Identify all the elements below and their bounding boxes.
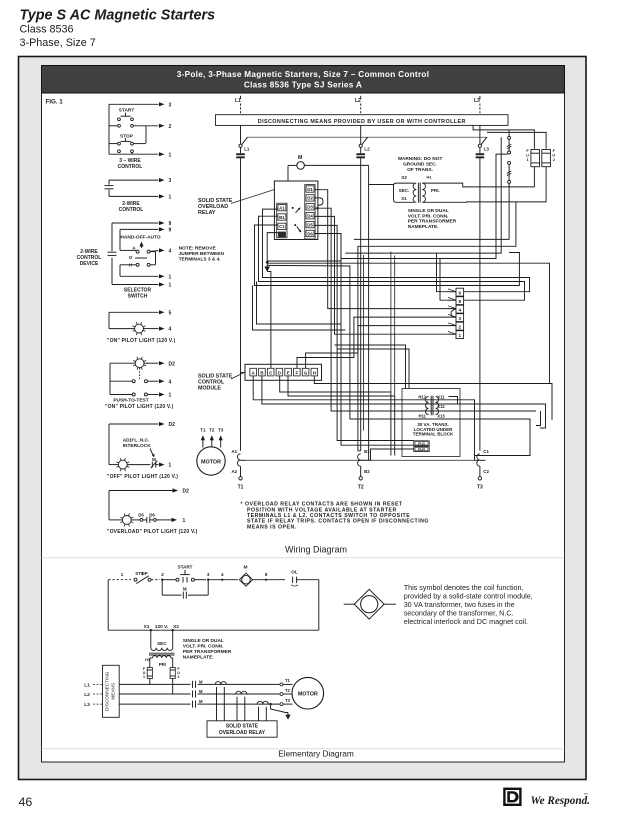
wire transformer route R4 [341, 154, 508, 258]
svg-text:INTERLOCK: INTERLOCK [123, 443, 152, 449]
svg-text:L2: L2 [364, 146, 370, 151]
motor terminals T1 T2 T3 (elementary) [280, 683, 283, 686]
svg-text:"ON" PILOT LIGHT (120 V.): "ON" PILOT LIGHT (120 V.) [105, 404, 174, 410]
svg-text:OF TRANS.: OF TRANS. [407, 167, 433, 173]
svg-text:D2: D2 [307, 196, 313, 201]
svg-text:9: 9 [169, 228, 172, 234]
ground tap (elementary) [269, 703, 271, 705]
wire relay D5 to fuse FU3 [314, 225, 413, 440]
wire terminal feed to 30VA b [337, 349, 409, 389]
svg-text:T2: T2 [285, 688, 291, 693]
wire relay A1 to terminal 9 [263, 209, 530, 292]
svg-text:3-Pole, 3-Phase Magnetic Start: 3-Pole, 3-Phase Magnetic Starters, Size … [177, 70, 430, 79]
ON pilot light left wire [108, 312, 110, 328]
svg-text:8: 8 [459, 299, 462, 304]
wire vertical 394 up [394, 256, 396, 397]
svg-text:H1: H1 [427, 175, 433, 180]
coil symbol legend diamond [354, 589, 384, 619]
svg-text:M: M [298, 155, 302, 161]
terminal T3 [479, 466, 481, 476]
pilot light PL3 [109, 464, 119, 466]
2-wire control device symbol [108, 251, 117, 253]
svg-text:"OVERLOAD" PILOT LIGHT (120 V.: "OVERLOAD" PILOT LIGHT (120 V.) [107, 529, 198, 535]
power wire L3 down [479, 158, 481, 451]
svg-text:L3: L3 [474, 98, 480, 104]
svg-text:C1: C1 [483, 449, 489, 454]
svg-text:3: 3 [169, 178, 172, 184]
elementary transformer primary [153, 656, 171, 658]
wire module D hook [536, 411, 541, 426]
disconnecting means box (elementary) [103, 665, 120, 717]
svg-text:PRI.: PRI. [431, 188, 440, 193]
solid state overload relay box (elementary) [207, 721, 277, 737]
svg-text:B: B [260, 370, 263, 375]
svg-text:X13: X13 [437, 414, 445, 419]
elementary rung right wire [318, 580, 320, 631]
push-to-test contact row 1 [132, 380, 135, 383]
svg-text:1: 1 [169, 195, 172, 201]
2-wire control: wire to terminal 1 [109, 195, 159, 197]
svg-text:4: 4 [169, 379, 172, 385]
wire bundle extra 1 [363, 255, 365, 431]
svg-text:D5: D5 [307, 222, 313, 227]
power wire L1 down [240, 158, 242, 451]
svg-text:M: M [199, 679, 203, 684]
phase 3 wire and CT [206, 703, 280, 705]
svg-text:L1: L1 [235, 98, 241, 104]
3-wire control left wire [108, 104, 110, 154]
motor M2 (elementary) [292, 677, 324, 709]
svg-text:M: M [183, 587, 187, 592]
selector right bracket wire [150, 251, 155, 253]
svg-text:L1: L1 [244, 146, 250, 151]
wire module A tap to L1 [241, 372, 246, 374]
svg-text:5: 5 [169, 310, 172, 316]
wire to terminal 1 [131, 153, 133, 154]
svg-text:3: 3 [207, 572, 210, 577]
svg-text:T3: T3 [477, 485, 483, 491]
pilot light PL1 [109, 328, 135, 330]
svg-text:MEANS IS OPEN.: MEANS IS OPEN. [247, 524, 297, 530]
dark title bar [42, 66, 565, 94]
svg-text:46: 46 [19, 795, 33, 809]
svg-text:FU3: FU3 [418, 442, 425, 446]
wire relay GND to ground [267, 233, 278, 263]
selector switch: wire to terminal 9 (inner) [120, 228, 159, 230]
overload relay box [274, 181, 318, 240]
wire staircase to module G [257, 282, 342, 325]
svg-text:L2: L2 [355, 98, 361, 104]
svg-text:D5: D5 [138, 512, 144, 517]
motor lead T2 arrow [211, 437, 213, 447]
svg-text:MOTOR: MOTOR [201, 459, 221, 465]
elementary transformer T1 secondary [150, 630, 152, 648]
svg-text:VOLT. PRI. CONN.: VOLT. PRI. CONN. [408, 213, 449, 219]
wire relay C1 loop [255, 225, 520, 286]
svg-text:F: F [296, 370, 299, 375]
2-wire control: wire to terminal 3 [109, 179, 159, 181]
svg-text:T1: T1 [200, 427, 206, 432]
svg-text:B1: B1 [364, 449, 370, 454]
svg-text:U: U [552, 154, 555, 158]
ground junction [266, 261, 269, 264]
svg-text:1: 1 [169, 274, 172, 280]
svg-text:electrical interlock and DC ma: electrical interlock and DC magnet coil. [404, 617, 528, 626]
svg-text:T3: T3 [285, 698, 291, 703]
svg-text:Elementary Diagram: Elementary Diagram [278, 748, 354, 758]
svg-text:E: E [287, 370, 290, 375]
relay terminals D1-D6 [305, 185, 315, 239]
svg-text:NAMEPLATE.: NAMEPLATE. [408, 224, 439, 230]
phase 1 wire and CT [206, 683, 280, 685]
terminal T2 [360, 466, 362, 476]
power wire L2 down [360, 158, 362, 451]
wire module E down [288, 376, 395, 456]
3-wire control: wire to terminal 3 [109, 103, 159, 105]
wire secondary to center [369, 184, 394, 186]
wire START row to terminal 2 [109, 125, 117, 127]
phase 2 wire and CT [206, 693, 280, 695]
wire box to fuse FU1 [473, 125, 534, 148]
svg-text:T2: T2 [209, 427, 215, 432]
OFF pilot left wire [108, 424, 110, 465]
wire START to STOP [145, 126, 147, 143]
svg-text:120 V.: 120 V. [155, 624, 168, 630]
svg-text:2: 2 [459, 324, 462, 329]
push-to-test left wire [110, 362, 135, 364]
svg-text:CONTROL: CONTROL [119, 207, 144, 213]
svg-text:OVERLOAD RELAY: OVERLOAD RELAY [219, 730, 266, 736]
fuse FU-L2 [360, 147, 362, 153]
motor M1 [197, 447, 225, 475]
svg-text:L3: L3 [84, 702, 90, 708]
wire transformer route R3 [345, 137, 501, 253]
svg-text:3: 3 [459, 316, 462, 321]
terminal T1 [240, 466, 242, 476]
svg-text:PER TRANSFORMER: PER TRANSFORMER [408, 219, 457, 225]
elementary diagram caption [42, 748, 565, 750]
overload sensor coil A1/A2 [237, 454, 240, 466]
svg-text:1: 1 [169, 463, 172, 469]
svg-text:D6: D6 [149, 512, 155, 517]
node L3 [479, 96, 481, 99]
svg-text:JUMPER BETWEEN: JUMPER BETWEEN [179, 251, 225, 257]
svg-text:1: 1 [169, 393, 172, 399]
30 VA transformer enclosure [402, 389, 460, 457]
svg-text:M: M [152, 457, 156, 462]
svg-text:D3: D3 [307, 205, 313, 210]
svg-text:RELAY: RELAY [198, 210, 216, 216]
terminal block hook 4-3 [451, 309, 456, 318]
svg-text:TERMINAL BLOCK: TERMINAL BLOCK [413, 432, 454, 437]
svg-text:2: 2 [161, 572, 164, 577]
selector switch: wire to terminal 9 (outer) [112, 222, 159, 224]
wire fan 2 from junction [267, 265, 530, 455]
svg-text:L2: L2 [84, 692, 90, 698]
svg-text:1: 1 [143, 675, 145, 679]
wire module G to terminal 2 [306, 326, 456, 369]
svg-text:"ON" PILOT LIGHT (120 V.): "ON" PILOT LIGHT (120 V.) [107, 338, 176, 344]
wire fan 1b from junction [267, 234, 341, 262]
primary tap jumper H2 [508, 136, 511, 139]
svg-text:DEVICE: DEVICE [80, 261, 99, 267]
selector: wire to terminal 1 (outer) [112, 284, 159, 286]
wire module B down [262, 376, 458, 404]
svg-text:G: G [304, 370, 308, 375]
ON pilot light: wire to terminal 5 [109, 311, 159, 313]
svg-text:PER TRANSFORMER: PER TRANSFORMER [183, 649, 232, 655]
svg-text:U: U [526, 154, 529, 158]
wire transformer route R2 [358, 202, 516, 451]
wire transformer route R1 [354, 183, 509, 239]
wire M coil right [304, 164, 368, 166]
svg-text:B2: B2 [364, 469, 370, 474]
svg-text:2: 2 [169, 124, 172, 130]
selector: wire to terminal 1 (inner) [120, 275, 159, 277]
Square D logo [504, 789, 520, 805]
svg-text:D4: D4 [307, 214, 313, 219]
svg-text:CONTROL: CONTROL [118, 164, 143, 170]
disconnect switch L1 [240, 125, 242, 144]
svg-text:M: M [199, 699, 203, 704]
selector left outer wire [111, 223, 113, 251]
wire vertical 390 up [390, 252, 392, 393]
wire fan 1 from junction [267, 263, 549, 383]
svg-text:1: 1 [121, 572, 124, 577]
terminal 3 [194, 579, 206, 581]
aux contact M branch [161, 580, 163, 595]
svg-text:Class 8536: Class 8536 [20, 24, 74, 36]
wire relay B1 to terminal 8 [259, 216, 525, 300]
CT secondary drops [216, 687, 218, 721]
svg-text:T3: T3 [218, 427, 224, 432]
svg-text:START: START [178, 565, 193, 570]
wire 2 to start [162, 579, 176, 581]
transformer T1 core [417, 183, 419, 203]
module terminals A-H [250, 368, 257, 376]
pilot light PL4 [109, 519, 123, 521]
svg-text:1: 1 [169, 283, 172, 289]
svg-text:SEC: SEC [157, 641, 167, 646]
svg-text:2: 2 [553, 158, 555, 162]
wire relay D3 bundle [316, 207, 318, 209]
svg-text:T1: T1 [238, 485, 244, 491]
wire module D down [280, 376, 391, 456]
svg-text:9: 9 [169, 221, 172, 227]
selector pointer arrow [141, 243, 143, 249]
inner white diagram panel [42, 66, 565, 763]
svg-text:PRI: PRI [159, 662, 166, 667]
outer gray figure frame [19, 57, 587, 780]
svg-text:STOP: STOP [120, 133, 134, 139]
svg-text:X1: X1 [401, 196, 407, 201]
svg-text:A1: A1 [279, 205, 285, 210]
OFF pilot light: wire to D2 [109, 423, 159, 425]
wire M coil left to relay [288, 164, 297, 166]
fuse FU4 [414, 447, 429, 452]
svg-text:NAMEPLATE.: NAMEPLATE. [183, 655, 214, 661]
svg-text:SWITCH: SWITCH [128, 294, 148, 300]
fuse FU-L3 [479, 147, 481, 153]
svg-text:ADD'L. N.C.: ADD'L. N.C. [123, 438, 150, 444]
wire block feed vertical b [440, 259, 456, 301]
motor lead T1 arrow [202, 437, 204, 448]
wire relay D1 to terminal 4 [314, 190, 456, 309]
control module box [245, 364, 322, 380]
svg-text:4: 4 [169, 327, 172, 333]
svg-text:OL: OL [291, 570, 298, 575]
wire module H down [314, 376, 552, 420]
wire L3 to fuse FU2 [487, 132, 546, 148]
svg-text:We Respond.: We Respond. [531, 795, 590, 807]
svg-text:STOP: STOP [135, 571, 147, 576]
wire A2 tap right [246, 459, 474, 461]
svg-text:GROUND SEC.: GROUND SEC. [403, 162, 437, 168]
svg-text:9: 9 [459, 290, 462, 295]
svg-text:SEC.: SEC. [399, 188, 410, 193]
terminal 8 [253, 579, 285, 581]
wire relay D4 to terminal 1 [314, 216, 456, 334]
svg-text:3-Phase, Size 7: 3-Phase, Size 7 [20, 37, 96, 49]
wire FU to B coil [367, 449, 414, 460]
svg-text:SINGLE OR DUAL: SINGLE OR DUAL [408, 208, 449, 214]
disconnect switch L2 [360, 125, 362, 144]
svg-text:T2: T2 [358, 485, 364, 491]
svg-text:VOLT. PRI. CONN.: VOLT. PRI. CONN. [183, 644, 224, 650]
svg-text:MOTOR: MOTOR [298, 692, 318, 698]
overload sensor coil C1/C2 [477, 454, 480, 466]
push-to-test contact row 2 [132, 393, 135, 396]
relay internal symbols near D3 D4 [292, 207, 294, 209]
svg-text:O: O [129, 255, 133, 260]
svg-text:DISCONNECTING: DISCONNECTING [105, 671, 110, 711]
wire staircase to module F [253, 286, 346, 331]
svg-text:SINGLE OR DUAL: SINGLE OR DUAL [183, 638, 224, 644]
svg-text:D2: D2 [169, 422, 176, 428]
push-to-test dashed actuator [139, 368, 141, 379]
2-wire control device contact [108, 180, 110, 185]
svg-text:FIG. 1: FIG. 1 [46, 99, 64, 106]
terminal block TB1 [456, 288, 464, 296]
ground symbol [266, 262, 268, 266]
wire module E hook right [458, 404, 546, 428]
wire relay D6 to fuse FU4 [314, 234, 413, 446]
svg-text:4: 4 [169, 249, 172, 255]
svg-text:DISCONNECTING MEANS PROVIDED B: DISCONNECTING MEANS PROVIDED BY USER OR … [258, 119, 466, 125]
svg-text:MEANS: MEANS [111, 683, 116, 700]
svg-text:X2: X2 [401, 175, 407, 180]
svg-text:A1: A1 [231, 449, 237, 454]
transformer T1 primary [422, 183, 425, 202]
fuse FU-L1 [240, 147, 242, 153]
svg-text:HAND-OFF-AUTO: HAND-OFF-AUTO [120, 235, 160, 241]
fuse FU3 [414, 441, 429, 446]
svg-text:X2: X2 [173, 624, 179, 630]
elementary rung bottom wire [108, 629, 319, 631]
svg-text:B1: B1 [279, 215, 285, 220]
svg-text:FU4: FU4 [418, 448, 425, 452]
svg-text:L3: L3 [484, 146, 490, 151]
push-to-test pilot light PL2 [135, 359, 144, 368]
svg-text:L1: L1 [84, 682, 90, 688]
terminal 4 [208, 579, 238, 581]
svg-text:MODULE: MODULE [198, 385, 221, 391]
relay terminals A1 B1 C1 GND [277, 203, 287, 238]
elementary rung left wire [107, 580, 109, 631]
svg-text:SOLID STATE: SOLID STATE [226, 724, 259, 730]
node L1 [240, 96, 242, 99]
elementary transformer core [149, 652, 175, 654]
overload sensor coil B1/B2 [358, 454, 361, 466]
OVERLOAD pilot: wire to D2 [109, 490, 173, 492]
motor lead T3 arrow [220, 437, 222, 448]
transformer T1 secondary [394, 183, 415, 202]
svg-text:M: M [244, 565, 248, 571]
disconnect switch L3 [479, 125, 481, 144]
svg-text:Wiring Diagram: Wiring Diagram [285, 545, 347, 555]
terminal 2 [151, 579, 160, 581]
svg-text:M: M [199, 689, 203, 694]
svg-text:NOTE: REMOVE: NOTE: REMOVE [179, 245, 217, 251]
svg-text:4: 4 [459, 307, 462, 312]
svg-text:1: 1 [169, 152, 172, 158]
svg-text:C2: C2 [483, 469, 489, 474]
svg-text:T1: T1 [285, 678, 291, 683]
svg-text:D1: D1 [307, 187, 313, 192]
selector left inner wire [119, 229, 121, 250]
wire relay D2 hook to D3 [314, 198, 323, 205]
svg-text:X1: X1 [144, 624, 150, 630]
svg-text:D: D [278, 370, 281, 375]
svg-text:C1: C1 [279, 224, 285, 229]
svg-text:1: 1 [183, 518, 186, 524]
svg-text:D2: D2 [183, 489, 190, 495]
svg-text:3: 3 [169, 102, 172, 108]
OVERLOAD pilot left wire [108, 491, 110, 520]
svg-text:D6: D6 [307, 231, 313, 236]
wire terminal feed to 30VA a [335, 345, 406, 389]
svg-text:START: START [119, 108, 135, 114]
svg-text:4: 4 [221, 572, 224, 577]
svg-text:™: ™ [584, 792, 588, 797]
fuse FU2 [542, 150, 551, 167]
wire module A down [253, 376, 478, 460]
svg-text:TERMINALS 3 & 4.: TERMINALS 3 & 4. [179, 257, 221, 263]
node L2 [360, 96, 362, 99]
svg-text:8: 8 [265, 572, 268, 577]
svg-text:H11: H11 [419, 414, 427, 419]
svg-text:Type S AC Magnetic Starters: Type S AC Magnetic Starters [20, 8, 216, 24]
phase wires through M contacts [119, 683, 190, 685]
svg-text:H: H [313, 370, 316, 375]
svg-text:Class 8536 Type SJ Series A: Class 8536 Type SJ Series A [244, 81, 362, 90]
svg-text:"OFF" PILOT LIGHT (120 V.): "OFF" PILOT LIGHT (120 V.) [107, 474, 178, 480]
svg-text:D2: D2 [169, 361, 176, 367]
svg-text:2: 2 [178, 675, 180, 679]
primary tap jumper H4 [508, 161, 511, 164]
wire block feed vertical a [437, 253, 457, 292]
wire STOP row [109, 143, 117, 145]
wire module C up [267, 272, 271, 369]
disconnecting means box [216, 115, 509, 126]
relay internal symbols near D5 D6 [294, 224, 296, 226]
svg-text:A2: A2 [231, 469, 237, 474]
switch linkage wire [248, 136, 487, 138]
svg-text:PUSH-TO-TEST: PUSH-TO-TEST [113, 398, 148, 404]
svg-text:1: 1 [459, 333, 462, 338]
wire module F to terminal 3 [297, 317, 456, 368]
svg-text:WARNING: DO NOT: WARNING: DO NOT [398, 156, 443, 162]
